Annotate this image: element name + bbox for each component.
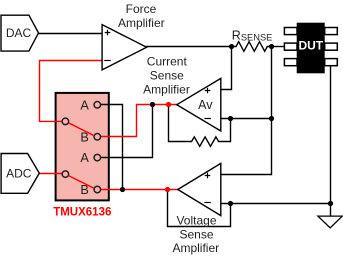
- svg-text:Amplifier: Amplifier: [172, 241, 219, 255]
- node RSENSE right junction: [269, 44, 274, 49]
- multiplexer TMUX6136 block: [56, 93, 109, 200]
- red wire TMUX B2 throw to voltage sense amp output: [101, 189, 179, 191]
- ADC block: [1, 154, 39, 194]
- svg-text:DAC: DAC: [6, 26, 32, 40]
- op-amp current sense amplifier Av: [177, 78, 221, 131]
- svg-text:Amplifier: Amplifier: [118, 16, 165, 30]
- DUT pin right 1: [325, 28, 338, 35]
- wire TMUX A1 throw to voltage sense node: [101, 105, 123, 190]
- node A2 tap on current sense output: [150, 102, 155, 107]
- svg-text:Sense: Sense: [179, 227, 213, 241]
- node ground junction: [328, 201, 333, 206]
- TMUX pole contact 1: [62, 118, 69, 125]
- svg-text:A: A: [80, 151, 89, 165]
- svg-text:Amplifier: Amplifier: [143, 83, 190, 97]
- DUT pin left 3: [284, 59, 297, 66]
- wire voltage sense amp - input row to ground node: [221, 203, 331, 205]
- node feedback tap on - input: [228, 116, 233, 121]
- resistor RSENSE: [232, 42, 272, 52]
- ground: [318, 216, 343, 228]
- TMUX throw contact B1: [94, 134, 101, 141]
- wire DUT pin to ground: [330, 66, 332, 216]
- op-amp force amplifier: [102, 25, 147, 70]
- svg-text:A: A: [80, 98, 89, 112]
- svg-text:TMUX6136: TMUX6136: [53, 207, 111, 219]
- DUT pin left 1: [284, 28, 297, 35]
- TMUX throw contact A2: [94, 154, 101, 161]
- node voltage feedback tap: [228, 201, 233, 206]
- svg-text:Voltage: Voltage: [176, 213, 216, 227]
- wire voltage sense amp feedback loop: [168, 190, 231, 227]
- node RSENSE left junction: [229, 44, 234, 49]
- red wire TMUX B1 throw to current sense amp output: [101, 105, 178, 137]
- red wire ADC to TMUX pole 2: [39, 173, 62, 175]
- red wire force amp - input to TMUX pole 1: [40, 61, 103, 122]
- svg-text:ADC: ADC: [6, 166, 32, 180]
- node sense line junction: [269, 116, 274, 121]
- DUT pin right 3: [325, 59, 338, 66]
- wire RSENSE left node down to current sense amp + input: [221, 47, 232, 90]
- DAC block: [1, 15, 39, 51]
- TMUX throw contact A1: [94, 102, 101, 109]
- wire current sense amp - input row: [221, 118, 272, 120]
- node A1 tap on voltage sense output: [120, 187, 125, 192]
- wire RSENSE right node down to voltage sense amp + input: [221, 47, 272, 175]
- TMUX switch wiper 1: [69, 123, 94, 136]
- TMUX pole contact 2: [62, 171, 69, 178]
- DUT pin right 2: [325, 43, 338, 50]
- feedback resistor of current sense amp: [169, 105, 231, 147]
- node current sense output (red): [166, 102, 171, 107]
- svg-text:Force: Force: [126, 2, 157, 16]
- wire DAC to force amp + input: [39, 33, 103, 35]
- wire RSENSE right node to DUT pin: [272, 46, 285, 48]
- svg-text:Current: Current: [147, 55, 188, 69]
- TMUX throw contact B2: [94, 186, 101, 193]
- wire TMUX A2 throw to current sense node: [101, 105, 153, 158]
- op-amp voltage sense amplifier: [178, 163, 221, 215]
- node voltage sense output (red): [165, 187, 170, 192]
- wire force amp output to RSENSE left node: [146, 46, 232, 48]
- svg-text:DUT: DUT: [298, 38, 323, 52]
- DUT pin left 2: [284, 43, 297, 50]
- svg-text:Av: Av: [198, 98, 213, 112]
- svg-text:Sense: Sense: [150, 68, 184, 82]
- TMUX switch wiper 2: [69, 176, 94, 189]
- DUT package: [297, 23, 325, 74]
